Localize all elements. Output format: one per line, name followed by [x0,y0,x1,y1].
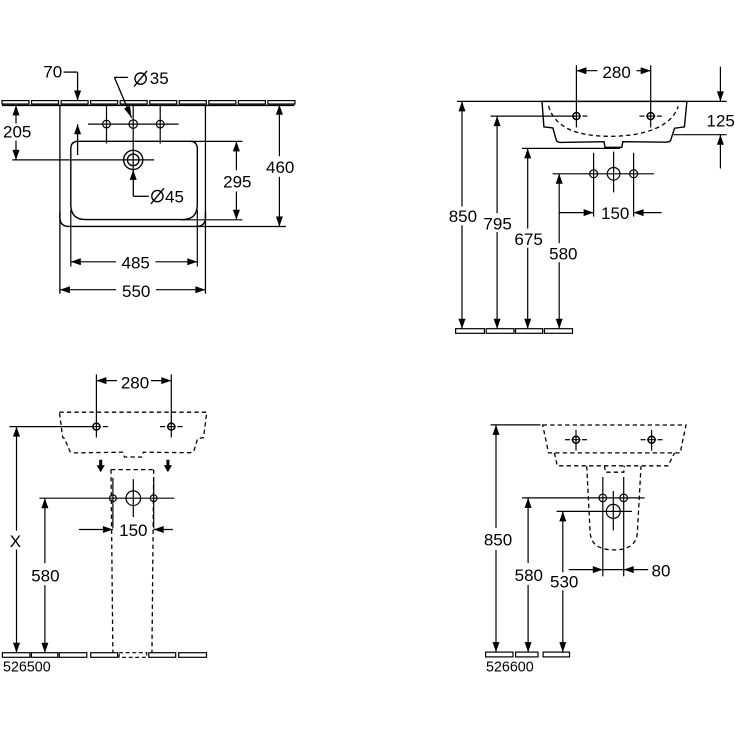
svg-text:850: 850 [449,207,477,226]
svg-text:675: 675 [514,230,542,249]
svg-text:550: 550 [122,282,150,301]
svg-text:850: 850 [484,531,512,550]
svg-text:580: 580 [31,566,59,585]
svg-text:80: 80 [652,562,671,581]
svg-text:460: 460 [266,158,294,177]
svg-text:580: 580 [515,566,543,585]
svg-text:526500: 526500 [3,660,51,676]
svg-text:150: 150 [119,521,147,540]
svg-text:526600: 526600 [486,660,534,676]
svg-text:795: 795 [483,214,511,233]
svg-text:150: 150 [601,204,629,223]
svg-text:580: 580 [549,244,577,263]
svg-text:125: 125 [707,112,735,131]
svg-text:280: 280 [121,373,149,392]
svg-text:45: 45 [165,187,184,206]
svg-text:485: 485 [122,254,150,273]
svg-text:X: X [10,532,21,551]
svg-text:205: 205 [3,123,31,142]
svg-text:280: 280 [602,63,630,82]
svg-text:295: 295 [223,172,251,191]
svg-text:70: 70 [43,63,62,82]
svg-text:530: 530 [550,573,578,592]
svg-text:35: 35 [150,69,169,88]
